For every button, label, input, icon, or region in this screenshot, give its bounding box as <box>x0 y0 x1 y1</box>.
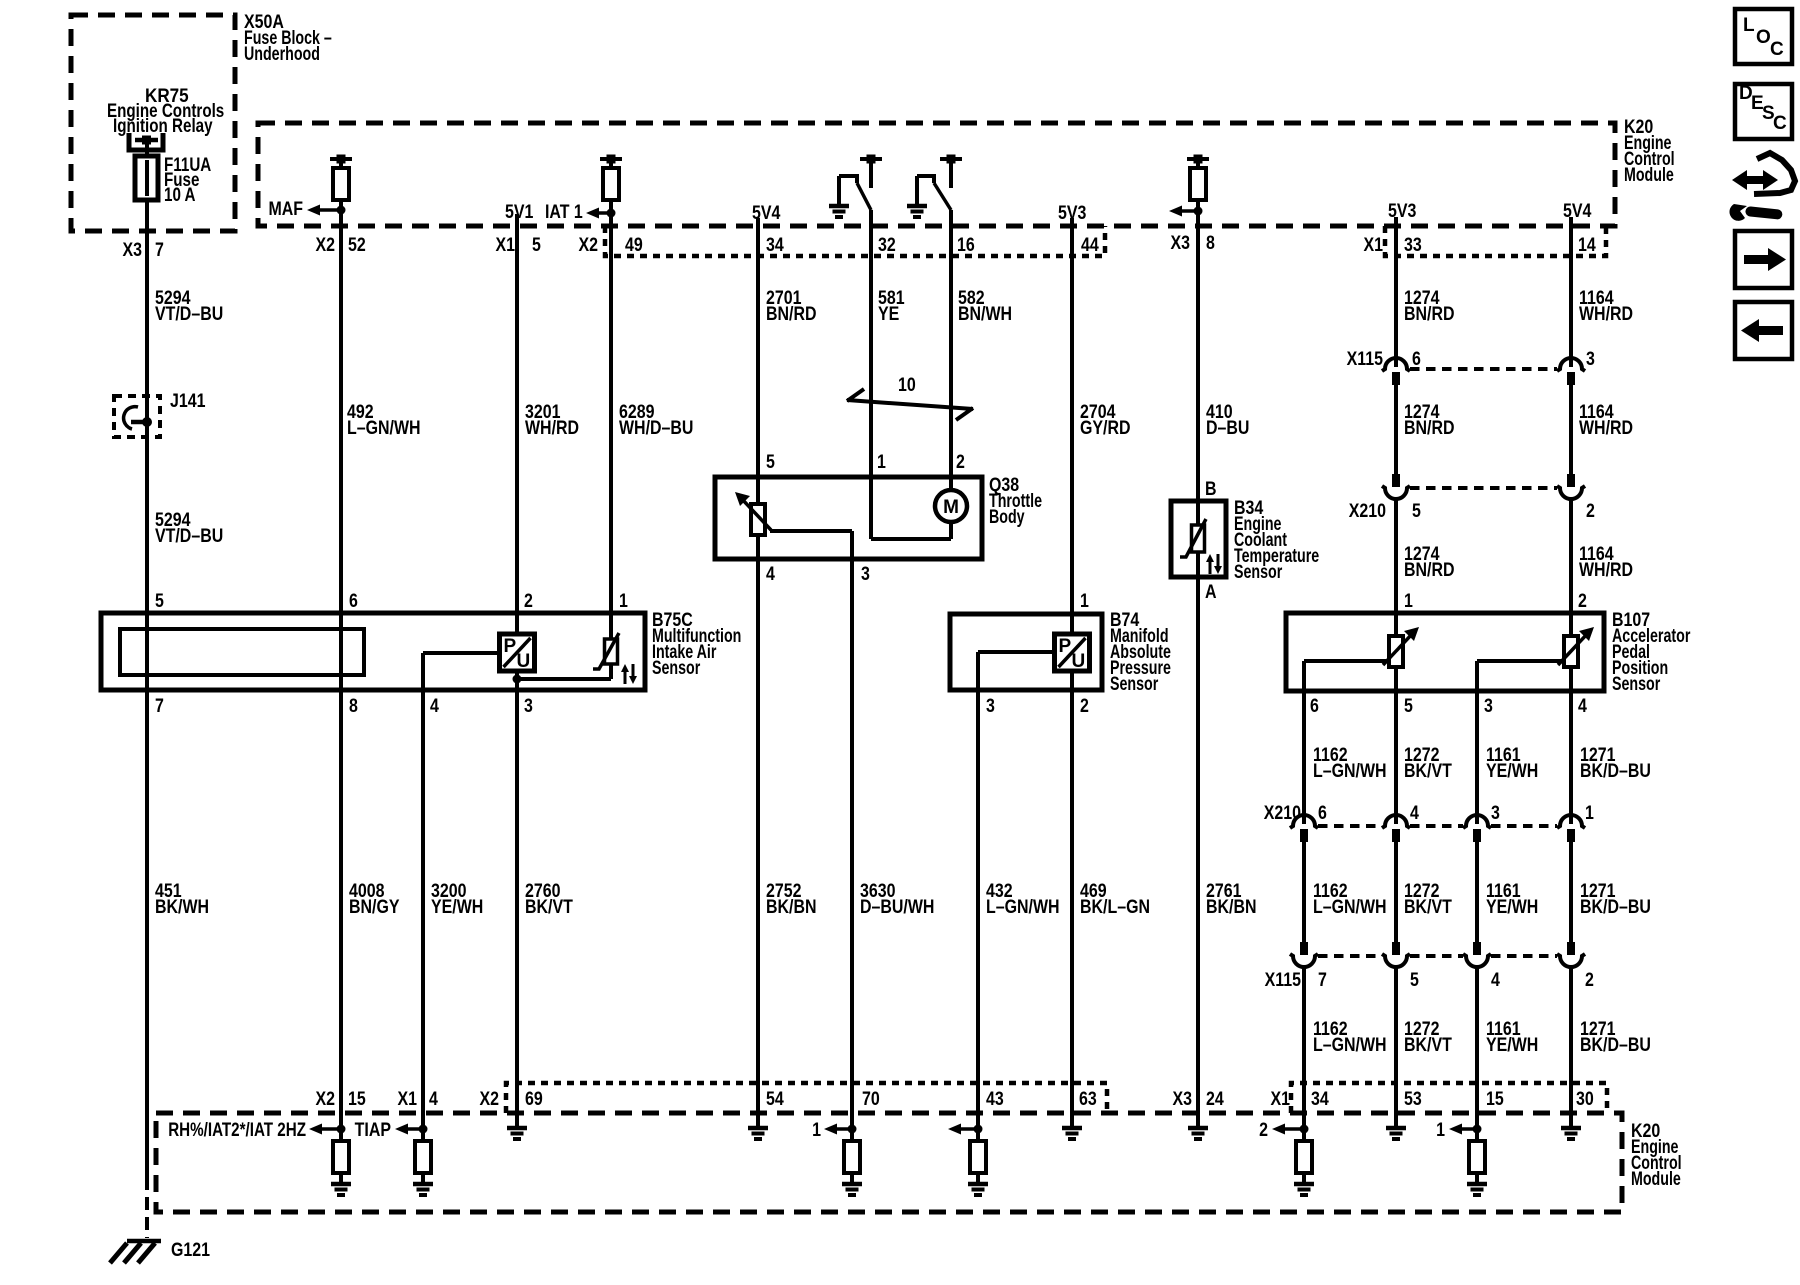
svg-text:P: P <box>504 636 517 657</box>
svg-text:X3: X3 <box>122 239 142 261</box>
svg-text:34: 34 <box>1311 1088 1329 1110</box>
B34 Engine Coolant Temperature Sensor box <box>1171 497 1319 583</box>
svg-text:WH/RD: WH/RD <box>1579 559 1633 581</box>
svg-text:U: U <box>1072 651 1086 672</box>
svg-text:1: 1 <box>1436 1119 1445 1141</box>
svg-text:BK/D–BU: BK/D–BU <box>1580 760 1651 782</box>
svg-text:3: 3 <box>986 695 995 717</box>
Q38 pin labels bottom <box>766 563 870 585</box>
svg-text:4: 4 <box>1410 802 1419 824</box>
svg-text:VT/D–BU: VT/D–BU <box>155 525 223 547</box>
5V3 supply label pin 44 <box>1058 202 1087 224</box>
svg-text:BN/GY: BN/GY <box>349 896 400 918</box>
svg-text:P: P <box>1059 636 1072 657</box>
svg-text:2: 2 <box>956 451 965 473</box>
signal arrow 1 pin 70 <box>812 1119 856 1141</box>
pin 44 label <box>1081 234 1099 256</box>
connector label X2 pin 49 <box>578 234 642 256</box>
svg-text:BN/RD: BN/RD <box>766 303 816 325</box>
B75C internal wire pin4 <box>423 653 499 690</box>
X210 dashed link row3 <box>1318 824 1557 828</box>
wire 4008 BN/GY B75C 8 to ECM <box>341 690 400 1141</box>
ground pin 34 bias <box>1294 1184 1314 1195</box>
svg-text:YE/WH: YE/WH <box>1486 760 1538 782</box>
TIAP signal arrow <box>355 1119 428 1141</box>
X210 row labels <box>1349 500 1595 522</box>
svg-text:15: 15 <box>1486 1088 1504 1110</box>
svg-text:3: 3 <box>1491 802 1500 824</box>
B75C internal wire pin5-7 <box>145 613 149 690</box>
svg-text:M: M <box>943 497 959 518</box>
B74 P/U transducer <box>1055 634 1090 672</box>
ground IAT bias <box>331 1184 351 1195</box>
wire 451 BK/WH B75C 7 to G121 <box>147 690 209 1238</box>
svg-text:WH/D–BU: WH/D–BU <box>619 417 693 439</box>
svg-text:X2: X2 <box>315 1088 335 1110</box>
svg-text:BK/D–BU: BK/D–BU <box>1580 1034 1651 1056</box>
svg-text:L–GN/WH: L–GN/WH <box>1313 760 1387 782</box>
RH%/IAT2*/IAT 2HZ signal arrow <box>168 1118 345 1140</box>
svg-text:BK/BN: BK/BN <box>1206 896 1256 918</box>
svg-text:Sensor: Sensor <box>1234 561 1283 582</box>
svg-text:YE/WH: YE/WH <box>1486 896 1538 918</box>
ECM X1 connector dotted box top right <box>1385 226 1606 256</box>
toolbar back arrow button <box>1735 302 1792 359</box>
svg-text:63: 63 <box>1079 1088 1097 1110</box>
svg-text:2: 2 <box>524 590 533 612</box>
svg-text:BK/BN: BK/BN <box>766 896 816 918</box>
bias resistor pin 43 <box>970 1141 986 1184</box>
bias resistor pin 70 <box>844 1141 860 1184</box>
bottom pin labels right <box>1270 1088 1593 1110</box>
svg-text:B: B <box>1205 478 1217 500</box>
svg-text:G121: G121 <box>171 1239 210 1261</box>
inline connector X115 pin 6 <box>1382 358 1410 385</box>
wire 1164 WH/RD X210 to B107 pin 2 <box>1571 499 1633 614</box>
ground pin 70 bias <box>842 1184 862 1195</box>
svg-text:X3: X3 <box>1172 1088 1192 1110</box>
svg-text:Underhood: Underhood <box>244 43 320 64</box>
wire 1271 segment X115-ECM 30 <box>1571 967 1651 1129</box>
svg-text:70: 70 <box>862 1088 880 1110</box>
X115 dashed link row4 <box>1318 954 1557 958</box>
X115 row labels <box>1347 348 1595 370</box>
B75C pin labels top <box>155 590 628 612</box>
pin 16 label <box>957 234 975 256</box>
svg-text:TIAP: TIAP <box>355 1119 392 1141</box>
pin 34 label <box>766 234 784 256</box>
wire 2760 BK/VT B75C 3 to ECM <box>517 690 573 1128</box>
wire label 5294 VT/D-BU upper <box>155 287 223 325</box>
ground G121 <box>110 1239 210 1263</box>
motor driver transistor pin 16 in ECM <box>907 155 962 218</box>
inline connector X210 pin 2 <box>1557 474 1585 499</box>
svg-text:X210: X210 <box>1349 500 1386 522</box>
fuse F11UA 10A <box>135 140 211 205</box>
wire 2752 BK/BN throttle 4 to ECM 54 <box>758 559 816 1113</box>
svg-text:8: 8 <box>349 695 358 717</box>
svg-text:BK/WH: BK/WH <box>155 896 209 918</box>
X115 row4 labels <box>1265 969 1594 991</box>
svg-text:5V4: 5V4 <box>1563 200 1592 222</box>
svg-text:J141: J141 <box>170 390 206 412</box>
svg-text:BK/L–GN: BK/L–GN <box>1080 896 1150 918</box>
wire 3200 YE/WH B75C 4 to ECM <box>423 690 483 1141</box>
wire 1274 BN/RD ECM 33 to X115 <box>1396 217 1454 367</box>
svg-text:8: 8 <box>1206 232 1215 254</box>
Q38 pin labels top <box>766 451 965 473</box>
B107 pin labels bottom <box>1310 695 1587 717</box>
ECM X2 connector dotted box bottom <box>506 1083 1107 1113</box>
ECT signal arrow <box>1169 206 1203 217</box>
wire 1272 segment X115-ECM 53 <box>1396 967 1452 1129</box>
ECM X1 connector dotted box bottom <box>1291 1083 1607 1113</box>
Q38 Throttle Body box <box>715 474 1042 559</box>
B107 potentiometer 2 <box>1558 613 1594 691</box>
connector label X2 pin 52 <box>315 234 365 256</box>
wire 492 L-GN/WH ECM to B75C pin 6 <box>341 226 421 613</box>
svg-text:C: C <box>1770 39 1784 60</box>
svg-text:VT/D–BU: VT/D–BU <box>155 303 223 325</box>
ground pin 15 bias <box>1467 1184 1487 1195</box>
wire 1162 segment X115-ECM 34 <box>1304 967 1387 1142</box>
IAT1 pull-up resistor in ECM <box>600 155 622 227</box>
svg-text:5V3: 5V3 <box>1388 200 1417 222</box>
svg-text:X2: X2 <box>479 1088 499 1110</box>
svg-text:X115: X115 <box>1347 348 1384 370</box>
motor driver transistor pin 32 in ECM <box>829 155 882 218</box>
X115 dashed link row1 <box>1410 367 1557 371</box>
B107 Accelerator Pedal Position Sensor box <box>1286 609 1691 695</box>
svg-text:O: O <box>1756 27 1771 48</box>
svg-text:X1: X1 <box>495 234 515 256</box>
svg-text:43: 43 <box>986 1088 1004 1110</box>
wire 1164 WH/RD X115 to X210 <box>1571 385 1633 474</box>
svg-text:4: 4 <box>1578 695 1587 717</box>
B75C temp up-down arrows <box>621 664 637 684</box>
wire 1161 segment X210-X115 <box>1477 842 1538 942</box>
wire 6289 WH/D-BU ECM X2-49 to B75C pin 1 <box>611 226 693 613</box>
svg-text:14: 14 <box>1578 234 1596 256</box>
signal arrow 2 pin 34 <box>1259 1119 1308 1141</box>
wire 581 YE ECM 32 to throttle pin 1 <box>871 210 905 477</box>
B74 internal wires <box>978 614 1072 690</box>
ground ECM pin 30 <box>1561 1128 1581 1139</box>
svg-text:33: 33 <box>1404 234 1422 256</box>
svg-text:5: 5 <box>1410 969 1419 991</box>
B75C P/U transducer <box>500 634 535 672</box>
svg-text:1: 1 <box>1585 802 1594 824</box>
svg-text:1: 1 <box>877 451 886 473</box>
svg-text:2: 2 <box>1259 1119 1268 1141</box>
toolbar LOC button <box>1735 9 1792 64</box>
svg-text:L–GN/WH: L–GN/WH <box>1313 1034 1387 1056</box>
B74 pin labels <box>986 590 1089 717</box>
wire 5294 J141 to B75C pin 5 <box>145 422 149 613</box>
wire 1162 L-GN/WH B107 6 <box>1304 691 1387 824</box>
svg-text:3: 3 <box>1484 695 1493 717</box>
wire 1274 BN/RD X115 to X210 <box>1396 385 1454 474</box>
svg-text:5: 5 <box>1404 695 1413 717</box>
svg-text:U: U <box>517 651 531 672</box>
inline connector X210 row pins 6 4 3 1 <box>1290 815 1585 842</box>
5V1 supply wire label <box>505 201 534 223</box>
svg-text:BK/VT: BK/VT <box>525 896 573 918</box>
X210 row3 labels <box>1264 802 1594 824</box>
wire 1271 BK/D-BU B107 4 <box>1571 691 1651 824</box>
connector label X3 pin 8 <box>1170 232 1215 254</box>
svg-text:L: L <box>1743 15 1755 36</box>
svg-text:X2: X2 <box>578 234 598 256</box>
inline connector X115 row pins 7 5 4 2 <box>1290 942 1585 967</box>
svg-text:D–BU/WH: D–BU/WH <box>860 896 934 918</box>
svg-text:4: 4 <box>429 1088 438 1110</box>
svg-text:6: 6 <box>1310 695 1319 717</box>
ground ECM pin 54 <box>748 1113 768 1139</box>
svg-text:X3: X3 <box>1170 232 1190 254</box>
B34 pin labels <box>1205 478 1217 603</box>
svg-text:69: 69 <box>525 1088 543 1110</box>
wire 1271 segment X210-X115 <box>1571 842 1651 942</box>
wire 1162 segment X210-X115 <box>1304 842 1387 942</box>
bias resistor pin 34 <box>1296 1141 1312 1184</box>
svg-text:YE/WH: YE/WH <box>431 896 483 918</box>
svg-text:7: 7 <box>1318 969 1327 991</box>
svg-text:Sensor: Sensor <box>652 657 701 678</box>
ground ECM pin 63 <box>1062 1128 1082 1139</box>
wire 1274 BN/RD X210 to B107 pin 1 <box>1396 499 1454 614</box>
svg-text:BK/VT: BK/VT <box>1404 1034 1452 1056</box>
svg-text:1: 1 <box>1404 590 1413 612</box>
svg-text:BN/WH: BN/WH <box>958 303 1012 325</box>
svg-text:GY/RD: GY/RD <box>1080 417 1131 439</box>
B34 temp up-down arrows <box>1206 554 1222 574</box>
svg-text:A: A <box>1205 581 1217 603</box>
B75C pin labels bottom <box>155 695 533 717</box>
5V4 supply label top middle <box>752 202 781 224</box>
pin 32 label <box>878 234 896 256</box>
bottom connector labels left <box>315 1088 542 1110</box>
svg-text:5V1: 5V1 <box>505 201 534 223</box>
wire 2701 BN/RD ECM 34 to throttle pin 5 <box>758 218 816 477</box>
svg-text:44: 44 <box>1081 234 1099 256</box>
signal arrow pin 43 <box>948 1124 983 1135</box>
svg-text:BN/RD: BN/RD <box>1404 303 1454 325</box>
Q38 throttle position potentiometer <box>735 477 771 559</box>
svg-text:BK/D–BU: BK/D–BU <box>1580 896 1651 918</box>
svg-text:RH%/IAT2*/IAT 2HZ: RH%/IAT2*/IAT 2HZ <box>168 1118 306 1140</box>
toolbar next arrow button <box>1735 231 1792 288</box>
svg-text:Sensor: Sensor <box>1110 673 1159 694</box>
svg-text:MAF: MAF <box>268 198 303 220</box>
wire 1161 YE/WH B107 3 <box>1477 691 1538 824</box>
wire 3630 D-BU/WH throttle 3 to ECM 70 <box>852 559 934 1141</box>
ground ECM pin 53 <box>1386 1128 1406 1139</box>
svg-text:BN/RD: BN/RD <box>1404 559 1454 581</box>
wire 1272 segment X210-X115 <box>1396 842 1452 942</box>
svg-text:X2: X2 <box>315 234 335 256</box>
ECM X2 connector dotted box top <box>605 226 1105 256</box>
svg-text:2: 2 <box>1585 969 1594 991</box>
svg-text:Sensor: Sensor <box>1612 673 1661 694</box>
svg-text:C: C <box>1773 113 1787 134</box>
svg-text:32: 32 <box>878 234 896 256</box>
B75C IAT thermistor <box>593 613 619 669</box>
X210 dashed link row2 <box>1410 486 1557 490</box>
svg-text:3: 3 <box>861 563 870 585</box>
B75C heater element rect <box>120 629 364 675</box>
wire label 5294 VT/D-BU lower <box>155 509 223 547</box>
relay KR75 Engine Controls Ignition Relay contact <box>107 85 224 150</box>
svg-text:5: 5 <box>155 590 164 612</box>
svg-text:IAT 1: IAT 1 <box>545 201 583 223</box>
svg-text:2: 2 <box>1578 590 1587 612</box>
svg-text:X1: X1 <box>397 1088 417 1110</box>
svg-text:X1: X1 <box>1270 1088 1290 1110</box>
TIAP bias resistor pin 4 <box>415 1141 431 1184</box>
svg-text:16: 16 <box>957 234 975 256</box>
wire 1161 segment X115-ECM 15 <box>1477 967 1538 1142</box>
connector label X1 pin 33 <box>1363 234 1421 256</box>
K20 Engine Control Module top box <box>258 116 1675 226</box>
B75C P/U to junction <box>513 671 522 690</box>
svg-text:2: 2 <box>1586 500 1595 522</box>
ground TIAP bias <box>413 1184 433 1195</box>
svg-text:YE: YE <box>878 303 900 325</box>
wire 432 L-GN/WH B74 3 to ECM 43 <box>978 690 1060 1141</box>
ground ECM pin 69 <box>507 1128 527 1139</box>
wire 3201 WH/RD ECM X1-5 to B75C pin 2 <box>517 214 579 613</box>
svg-text:4: 4 <box>430 695 439 717</box>
svg-text:WH/RD: WH/RD <box>1579 303 1633 325</box>
svg-text:WH/RD: WH/RD <box>525 417 579 439</box>
svg-text:BK/VT: BK/VT <box>1404 896 1452 918</box>
svg-text:Body: Body <box>989 506 1025 527</box>
svg-text:X210: X210 <box>1264 802 1301 824</box>
svg-text:Module: Module <box>1631 1168 1681 1189</box>
IAT 1 signal arrow <box>545 201 616 223</box>
svg-text:L–GN/WH: L–GN/WH <box>347 417 421 439</box>
svg-text:L–GN/WH: L–GN/WH <box>1313 896 1387 918</box>
K20 Engine Control Module bottom box <box>156 1113 1682 1212</box>
svg-text:1: 1 <box>812 1119 821 1141</box>
B34 thermistor <box>1180 501 1206 577</box>
bias resistor pin 15 right <box>1469 1141 1485 1184</box>
wire 410 D-BU ECM X3-8 to B34 pin B <box>1198 226 1249 501</box>
B74 Manifold Absolute Pressure Sensor box <box>950 609 1171 695</box>
B75C internal wire pin2 to P/U <box>515 613 519 634</box>
svg-text:BK/VT: BK/VT <box>1404 760 1452 782</box>
B107 pin labels top <box>1404 590 1587 612</box>
svg-text:3: 3 <box>524 695 533 717</box>
wire 582 BN/WH ECM 16 to throttle pin 2 <box>951 210 1012 477</box>
svg-text:Module: Module <box>1624 164 1674 185</box>
svg-text:1: 1 <box>619 590 628 612</box>
wire 2761 BK/BN B34 A to ECM X3-24 <box>1198 577 1256 1128</box>
B75C internal wire pin6-8 <box>339 613 343 690</box>
svg-text:6: 6 <box>1318 802 1327 824</box>
svg-text:YE/WH: YE/WH <box>1486 1034 1538 1056</box>
B75C Multifunction Intake Air Sensor box <box>101 609 741 690</box>
inline connector X210 pin 5 <box>1382 474 1410 499</box>
B75C junction to thermistor <box>517 664 611 679</box>
svg-text:5: 5 <box>1412 500 1421 522</box>
signal arrow 1 pin 15 <box>1436 1119 1481 1141</box>
wire 5294 fuse to J141 splice <box>145 200 149 422</box>
svg-text:54: 54 <box>766 1088 784 1110</box>
connector label X3 pin 7 <box>122 239 163 261</box>
Q38 motor circuit pin1 <box>871 477 951 539</box>
B107 potentiometer 1 <box>1383 613 1419 691</box>
inline connector X115 pin 3 <box>1557 358 1585 385</box>
toolbar navigate icon arrows and wrench <box>1729 153 1795 221</box>
svg-text:15: 15 <box>348 1088 366 1110</box>
wire 1164 WH/RD ECM 14 to X115 <box>1571 217 1633 367</box>
svg-text:34: 34 <box>766 234 784 256</box>
wire 1272 BK/VT B107 5 <box>1396 691 1452 824</box>
wire 2704 GY/RD ECM 44 to B74 pin 1 <box>1072 218 1131 614</box>
bottom pin labels middle <box>766 1088 1224 1110</box>
5V4 supply label pin 14 <box>1563 200 1592 222</box>
svg-text:7: 7 <box>155 239 164 261</box>
svg-text:10 A: 10 A <box>164 183 196 205</box>
svg-text:4: 4 <box>1491 969 1500 991</box>
svg-text:3: 3 <box>1586 348 1595 370</box>
MAF pull-up resistor in ECM <box>330 155 352 227</box>
svg-text:6: 6 <box>1412 348 1421 370</box>
svg-text:5: 5 <box>766 451 775 473</box>
svg-text:30: 30 <box>1576 1088 1594 1110</box>
svg-text:52: 52 <box>348 234 366 256</box>
ground ECM pin X3-24 <box>1188 1128 1208 1139</box>
svg-text:7: 7 <box>155 695 164 717</box>
svg-text:2: 2 <box>1080 695 1089 717</box>
pin 14 label <box>1578 234 1596 256</box>
wire 469 BK/L-GN B74 2 to ECM 63 <box>1072 690 1150 1128</box>
splice J141 <box>114 390 206 437</box>
svg-text:D–BU: D–BU <box>1206 417 1249 439</box>
B107 pot2 wiper to pin 3 <box>1477 661 1564 691</box>
svg-text:1: 1 <box>1080 590 1089 612</box>
IAT bias resistor pin 15 <box>333 1141 349 1184</box>
svg-text:X115: X115 <box>1265 969 1302 991</box>
svg-text:49: 49 <box>625 234 643 256</box>
svg-text:4: 4 <box>766 563 775 585</box>
svg-text:5: 5 <box>532 234 541 256</box>
ECT pull-up resistor in ECM <box>1187 155 1209 227</box>
svg-text:WH/RD: WH/RD <box>1579 417 1633 439</box>
MAF signal arrow <box>268 198 345 220</box>
svg-text:53: 53 <box>1404 1088 1422 1110</box>
Q38 pot wiper to pin 3 <box>770 531 852 559</box>
svg-text:BN/RD: BN/RD <box>1404 417 1454 439</box>
5V3 supply label pin 33 <box>1388 200 1417 222</box>
X50A Fuse Block - Underhood box <box>71 11 332 231</box>
svg-text:6: 6 <box>349 590 358 612</box>
connector label X1 pin 5 <box>495 234 541 256</box>
toolbar DESC button <box>1735 83 1792 139</box>
svg-text:L–GN/WH: L–GN/WH <box>986 896 1060 918</box>
ground pin 43 bias <box>968 1184 988 1195</box>
Q38 throttle motor M <box>935 477 967 522</box>
twisted pair marker 10 <box>847 374 973 420</box>
B107 pot1 wiper to pin 6 <box>1304 661 1390 691</box>
svg-text:24: 24 <box>1206 1088 1224 1110</box>
svg-text:X1: X1 <box>1363 234 1383 256</box>
svg-text:10: 10 <box>898 374 916 396</box>
